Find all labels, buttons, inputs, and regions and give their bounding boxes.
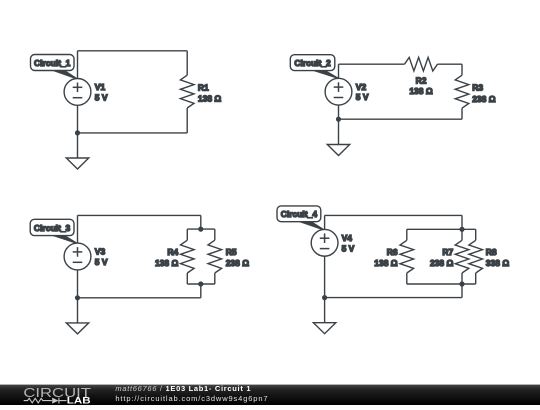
- wire: [78, 297, 201, 299]
- footer title text: [115, 384, 268, 403]
- svg-text:Circuit_1: Circuit_1: [34, 58, 71, 68]
- svg-text:V2: V2: [356, 82, 367, 92]
- CircuitLab logo CIRCUIT: [23, 386, 91, 400]
- svg-text:5 V: 5 V: [356, 92, 369, 102]
- svg-text:R7: R7: [442, 247, 453, 257]
- value label R3 238 Ω: [472, 83, 496, 104]
- node junction: [199, 227, 203, 231]
- wire: [77, 51, 79, 79]
- resistor R1: [180, 75, 194, 108]
- svg-text:R5: R5: [226, 247, 237, 257]
- svg-text:R1: R1: [198, 83, 209, 93]
- svg-text:5 V: 5 V: [95, 257, 108, 267]
- svg-text:Circuit_3: Circuit_3: [34, 223, 71, 233]
- svg-text:V4: V4: [342, 233, 353, 243]
- wire: [78, 214, 201, 216]
- value label R1 138 Ω: [198, 83, 222, 104]
- CircuitLab logo resistor squiggle and diode: [24, 398, 67, 404]
- svg-text:R3: R3: [472, 83, 483, 93]
- wire: [339, 118, 463, 120]
- svg-text:Circuit_2: Circuit_2: [294, 58, 331, 68]
- wire: [325, 297, 462, 299]
- value label R4 138 Ω: [155, 247, 179, 268]
- svg-text:5 V: 5 V: [95, 92, 108, 102]
- node junction: [199, 282, 203, 286]
- resistor R4: [181, 229, 195, 284]
- wire: [324, 215, 326, 229]
- wire: [325, 214, 462, 216]
- value label R8 338 Ω: [486, 247, 510, 268]
- resistor R3: [455, 75, 469, 108]
- label Circuit_4: [277, 206, 324, 230]
- node junction: [337, 117, 341, 121]
- svg-text:238 Ω: 238 Ω: [226, 258, 250, 268]
- voltage source V1: [64, 79, 91, 106]
- resistor R8: [469, 229, 483, 284]
- wire: [187, 228, 215, 230]
- svg-text:238 Ω: 238 Ω: [430, 258, 454, 268]
- ground: [66, 323, 88, 334]
- value label R5 238 Ω: [226, 247, 250, 268]
- value label V4 5 V: [342, 233, 355, 253]
- svg-text:R6: R6: [387, 247, 398, 257]
- svg-text:138 Ω: 138 Ω: [198, 94, 222, 104]
- svg-text:R2: R2: [416, 75, 427, 85]
- node junction: [460, 282, 464, 286]
- wire: [461, 108, 463, 119]
- label Circuit_2: [290, 55, 338, 78]
- ground: [66, 158, 88, 169]
- wire: [77, 215, 79, 243]
- value label V1 5 V: [95, 82, 108, 102]
- label Circuit_3: [30, 219, 77, 243]
- svg-text:V3: V3: [95, 247, 106, 257]
- wire: [187, 283, 215, 285]
- svg-text:Circuit_4: Circuit_4: [281, 209, 318, 219]
- svg-text:5 V: 5 V: [342, 243, 355, 253]
- wire: [407, 283, 476, 285]
- wire: [461, 215, 463, 229]
- CircuitLab logo LAB: [67, 395, 91, 405]
- wire: [338, 105, 340, 144]
- resistor R6: [400, 229, 414, 284]
- node junction: [323, 296, 327, 300]
- wire: [461, 284, 463, 298]
- wire: [407, 228, 476, 230]
- voltage source V4: [311, 229, 338, 256]
- svg-text:138 Ω: 138 Ω: [155, 258, 179, 268]
- svg-text:138 Ω: 138 Ω: [374, 258, 398, 268]
- wire: [77, 105, 79, 158]
- ground: [313, 323, 335, 334]
- node junction: [76, 131, 80, 135]
- resistor R7: [455, 229, 469, 284]
- voltage source V2: [325, 78, 352, 105]
- resistor R2: [405, 57, 438, 71]
- node junction: [76, 296, 80, 300]
- value label R7 238 Ω: [430, 247, 454, 268]
- svg-text:http://circuitlab.com/c3dww9s4: http://circuitlab.com/c3dww9s4g6pn7: [115, 394, 268, 403]
- svg-text:138 Ω: 138 Ω: [409, 86, 433, 96]
- wire: [200, 284, 202, 298]
- value label V3 5 V: [95, 247, 108, 267]
- wire: [200, 215, 202, 229]
- svg-text:R8: R8: [486, 247, 497, 257]
- wire: [324, 256, 326, 323]
- wire: [186, 108, 188, 133]
- wire: [78, 132, 188, 134]
- wire: [77, 270, 79, 323]
- svg-text:V1: V1: [95, 82, 106, 92]
- wire: [186, 51, 188, 75]
- node junction: [460, 227, 464, 231]
- wire: [339, 63, 405, 65]
- value label R6 138 Ω: [374, 247, 398, 268]
- value label V2 5 V: [356, 82, 369, 102]
- wire: [338, 64, 340, 78]
- svg-text:matt66766 / 1E03 Lab1- Circuit: matt66766 / 1E03 Lab1- Circuit 1: [115, 384, 251, 393]
- svg-text:LAB: LAB: [67, 395, 91, 405]
- resistor R5: [208, 229, 222, 284]
- svg-text:238 Ω: 238 Ω: [472, 94, 496, 104]
- value label R2 138 Ω: [409, 75, 433, 96]
- wire: [78, 50, 188, 52]
- svg-text:R4: R4: [167, 247, 178, 257]
- svg-text:338 Ω: 338 Ω: [486, 258, 510, 268]
- label Circuit_1: [31, 55, 77, 79]
- ground: [327, 145, 349, 156]
- wire: [461, 64, 463, 75]
- voltage source V3: [64, 243, 91, 270]
- wire: [438, 63, 463, 65]
